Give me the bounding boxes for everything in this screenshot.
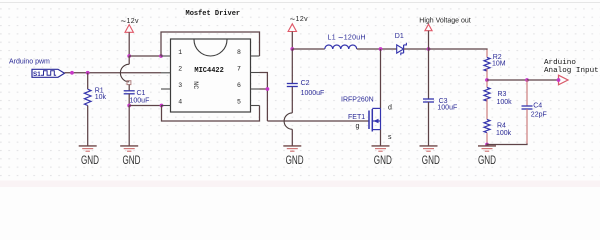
- pin 8: [237, 49, 260, 56]
- wire L1 to D1: [357, 48, 397, 50]
- ground under FET1: [372, 146, 393, 167]
- wire C3 top: [428, 49, 430, 99]
- svg-text:C1: C1: [137, 90, 146, 97]
- resistor R3: [484, 81, 512, 106]
- svg-text:10M: 10M: [492, 61, 506, 68]
- svg-text:GND: GND: [123, 153, 141, 167]
- pin 2: [161, 66, 182, 73]
- svg-text:8: 8: [237, 49, 241, 56]
- svg-text:22pF: 22pF: [531, 112, 547, 119]
- capacitor C3: [423, 98, 457, 111]
- svg-text:IRFP260N: IRFP260N: [341, 97, 374, 104]
- node drain junction: [379, 47, 383, 51]
- capacitor C4: [522, 103, 547, 119]
- svg-text:Arduino: Arduino: [544, 59, 576, 67]
- svg-text:GND: GND: [81, 153, 99, 167]
- resistor R2: [484, 50, 506, 72]
- capacitor C2: [287, 80, 325, 97]
- resistor R4: [484, 120, 512, 138]
- svg-text:R4: R4: [497, 122, 506, 129]
- svg-text:S1: S1: [33, 71, 41, 78]
- wire C2 column with hop over gate wire: [284, 49, 292, 146]
- wire HV node to R2: [429, 49, 488, 50]
- node ground return junction: [485, 143, 489, 147]
- wire R1 bottom to ground: [87, 106, 89, 146]
- wire 12v right drop: [291, 32, 293, 50]
- pin 7: [237, 66, 260, 73]
- svg-text:NC: NC: [192, 81, 199, 89]
- svg-text:6: 6: [237, 82, 241, 89]
- node analog port junction: [557, 78, 561, 82]
- svg-text:GND: GND: [286, 153, 304, 167]
- ground under C3: [420, 146, 441, 167]
- wire rail to L1: [292, 48, 324, 50]
- port S1 Arduino pwm: [9, 58, 65, 78]
- svg-text:7: 7: [237, 66, 241, 73]
- svg-text:L1 ~120uH: L1 ~120uH: [328, 32, 366, 42]
- pin 6: [237, 82, 260, 89]
- svg-text:C4: C4: [533, 103, 542, 110]
- wire C3 bottom to ground: [428, 102, 430, 146]
- svg-text:D1: D1: [395, 33, 404, 40]
- pin 5: [237, 99, 260, 106]
- diode D1 schottky: [395, 33, 407, 55]
- ground under C1: [120, 146, 141, 167]
- node R1 tap junction: [86, 71, 90, 75]
- ground under R1: [79, 146, 100, 167]
- svg-text:g: g: [356, 123, 360, 130]
- node pin6 gate junction: [266, 87, 270, 91]
- svg-text:5: 5: [237, 99, 241, 106]
- resistor R1: [84, 87, 106, 105]
- power +12v left: [121, 16, 140, 32]
- pin 4: [161, 99, 182, 106]
- inductor L1: [325, 32, 366, 49]
- svg-text:d: d: [388, 105, 392, 112]
- svg-text:C2: C2: [301, 80, 310, 87]
- wire R4 to ground: [486, 144, 488, 146]
- wire FET source to ground: [380, 130, 382, 146]
- transistor FET1 IRFP260N: [341, 97, 392, 141]
- wire D1 to HV node: [404, 48, 429, 50]
- pin 3: [161, 82, 182, 89]
- svg-text:Arduino pwm: Arduino pwm: [9, 58, 50, 65]
- node divider tap junction: [485, 78, 489, 82]
- node pwm port junction: [70, 71, 74, 75]
- svg-text:10k: 10k: [95, 94, 107, 101]
- node C4 top junction: [525, 78, 529, 82]
- svg-text:FET1: FET1: [348, 114, 365, 121]
- wire 12v left drop: [128, 32, 130, 56]
- svg-text:High Voltage out: High Voltage out: [419, 17, 470, 24]
- svg-text:GND: GND: [478, 153, 496, 167]
- wire C1 to pin4: [129, 105, 161, 107]
- svg-text:100k: 100k: [497, 99, 513, 106]
- node 12v right junction: [290, 47, 294, 51]
- power +12v right: [288, 14, 308, 32]
- node pin4 junction: [160, 104, 164, 108]
- svg-text:100k: 100k: [496, 130, 512, 137]
- wire tap to C4: [487, 79, 527, 81]
- wire C4 bottom pin: [526, 109, 528, 144]
- wire rail 12v to pin1: [129, 55, 161, 57]
- wire C1 to ground: [128, 106, 130, 146]
- ground under C2: [283, 146, 304, 167]
- op-amp U1 MIC4422 IC body: [171, 39, 251, 112]
- capacitor C1: [124, 90, 150, 104]
- svg-text:1000uF: 1000uF: [301, 90, 325, 97]
- svg-text:100uF: 100uF: [437, 104, 457, 111]
- svg-text:3: 3: [178, 82, 182, 89]
- node high voltage junction: [427, 47, 431, 51]
- svg-text:R3: R3: [498, 91, 507, 98]
- node pin1 rail junction: [159, 54, 163, 58]
- svg-text:Mosfet Driver: Mosfet Driver: [186, 10, 241, 18]
- svg-text:MIC4422: MIC4422: [194, 67, 223, 75]
- wire R2 bottom: [486, 69, 488, 80]
- ground under R4: [478, 146, 496, 167]
- svg-text:Analog Input: Analog Input: [544, 67, 599, 75]
- pin 1: [161, 49, 182, 56]
- wire gate row to FET gate: [267, 120, 369, 122]
- svg-text:4: 4: [178, 99, 182, 106]
- svg-text:GND: GND: [422, 153, 440, 167]
- svg-text:s: s: [388, 134, 392, 141]
- wire R1 top: [87, 73, 89, 89]
- wire HV drop: [428, 31, 430, 49]
- svg-text:GND: GND: [374, 153, 392, 167]
- wire R3 to R4: [486, 99, 488, 120]
- wire pin7 to gate row: [260, 73, 268, 122]
- wire pin6 extension: [260, 88, 268, 90]
- power High Voltage out: [419, 17, 470, 30]
- wire C1 column with hop over pwm: [120, 56, 130, 91]
- wire ground link pin4 to pin5: [162, 106, 260, 122]
- wire C4 return: [487, 144, 527, 145]
- wire C1 bottom: [128, 94, 130, 106]
- svg-text:100uF: 100uF: [130, 97, 150, 104]
- svg-text:1: 1: [178, 49, 182, 56]
- port Arduino Analog Input: [544, 59, 599, 85]
- node 12v left junction: [127, 54, 131, 58]
- wire tap to analog port: [527, 79, 559, 81]
- wire FET drain: [380, 49, 382, 108]
- wire top over link pin1 rail to pin8: [161, 32, 260, 56]
- wire pwm line port to pin2: [65, 72, 162, 74]
- node C1 bottom junction: [127, 104, 131, 108]
- wire R4 bottom: [486, 133, 488, 144]
- wire C4 top pin: [526, 80, 528, 106]
- svg-text:2: 2: [178, 66, 182, 73]
